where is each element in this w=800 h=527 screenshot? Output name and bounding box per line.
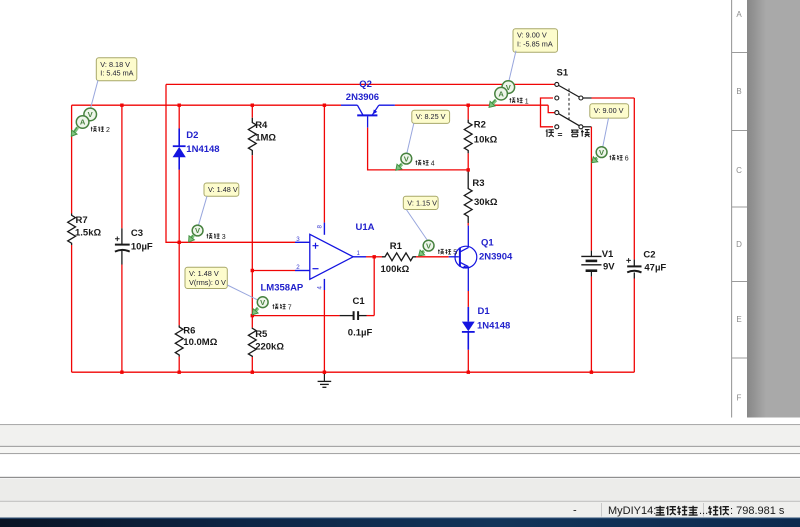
probe 2 readout box <box>96 58 137 81</box>
junction ground symbol/rail <box>323 371 326 374</box>
wire output to C1 branch <box>373 257 375 316</box>
svg-text:2N3906: 2N3906 <box>346 92 379 103</box>
svg-text:U1A: U1A <box>356 222 375 233</box>
svg-text:D2: D2 <box>186 130 198 141</box>
ground <box>318 372 332 387</box>
junction R5/ground rail <box>251 371 254 374</box>
probe 5 V circle <box>423 240 434 251</box>
svg-text:LM358AP: LM358AP <box>261 283 304 294</box>
svg-text:A: A <box>80 118 86 127</box>
switch S1 contacts and blades <box>555 82 592 128</box>
wire inverting input <box>252 270 295 272</box>
svg-text:1N4148: 1N4148 <box>477 321 510 332</box>
svg-text:2N3904: 2N3904 <box>479 252 513 263</box>
junction output node <box>373 255 376 258</box>
probe 7 readout box <box>185 267 227 288</box>
probe 3 readout box <box>204 183 239 196</box>
svg-text:4: 4 <box>317 286 324 290</box>
svg-text:-: - <box>573 505 577 517</box>
wire D2/R6 branch middle <box>178 170 180 325</box>
wire D1 to ground rail <box>467 350 469 372</box>
probe 5 label 探针5 <box>438 249 457 257</box>
wire R5 branch lower <box>251 357 253 372</box>
probe 4 readout box <box>412 110 450 123</box>
probe 4 V circle <box>401 153 412 164</box>
wire non-inverting input net (corner x166) <box>166 84 295 242</box>
svg-text:30kΩ: 30kΩ <box>474 197 498 208</box>
wire op-amp V- supply to ground rail <box>323 290 325 372</box>
svg-text:I: 5.45 mA: I: 5.45 mA <box>100 68 133 77</box>
svg-text:V: 1.48 V: V: 1.48 V <box>208 185 238 194</box>
probe 1 readout box <box>513 29 558 53</box>
probe 3 arrow <box>189 235 195 242</box>
wire op-amp V+ supply branch <box>323 105 325 222</box>
wire left branch lower <box>71 245 73 372</box>
probe 7 label 探针7 <box>273 304 292 312</box>
junction C3/top rail <box>120 104 123 107</box>
resistor R2 <box>464 120 472 154</box>
junction + input node <box>178 241 181 244</box>
probe 6 arrow <box>592 157 598 163</box>
probe 7 leader <box>227 285 257 300</box>
wire V1 branch upper <box>590 127 592 251</box>
wire S1 throw tie (left U) <box>541 98 554 127</box>
svg-text:10µF: 10µF <box>131 241 153 252</box>
probe 2 leader <box>91 80 98 108</box>
probe 1 leader <box>509 51 516 81</box>
svg-text:1MΩ: 1MΩ <box>255 133 276 144</box>
wire R1 to Q1 base <box>416 256 449 258</box>
junction U1A supply/top rail <box>323 104 326 107</box>
probe 6 leader <box>603 118 609 147</box>
probe 1 arrow <box>489 100 496 108</box>
probe 4 label 探针4 <box>416 160 435 168</box>
wire C3 branch lower <box>121 265 123 373</box>
svg-text:S1: S1 <box>557 68 569 79</box>
capacitor C1 <box>340 311 367 320</box>
probe 5 readout box <box>403 196 438 209</box>
wire rail corner into switch pole 2 <box>548 105 555 112</box>
svg-text:...: ... <box>699 505 708 517</box>
svg-text:R4: R4 <box>255 120 268 131</box>
svg-text:47µF: 47µF <box>644 262 666 273</box>
svg-text:V: 9.00 V: V: 9.00 V <box>594 106 624 115</box>
svg-text:C3: C3 <box>131 228 143 239</box>
wire R4-R5 branch middle <box>251 155 253 327</box>
svg-text:D: D <box>736 240 742 249</box>
probe 2 label 探针2 <box>91 126 110 134</box>
svg-text:1: 1 <box>525 98 529 105</box>
wire Q2 base to R2/R3 node <box>368 128 469 170</box>
probe 1 V circle <box>502 81 515 94</box>
wire rail Q2 emitter to switch <box>395 104 548 106</box>
wire R6 branch lower <box>178 357 180 373</box>
resistor R6 <box>175 325 183 356</box>
svg-text:R2: R2 <box>474 120 486 131</box>
transistor Q2 2N3906 (PNP) <box>341 105 395 127</box>
junction V1/ground rail <box>590 371 593 374</box>
svg-text:6: 6 <box>625 156 629 163</box>
svg-text:D1: D1 <box>478 306 491 317</box>
wire C1 right stub <box>367 315 375 317</box>
resistor R1 <box>382 253 416 261</box>
junction R4/top rail <box>251 104 254 107</box>
svg-text:A: A <box>736 10 742 19</box>
wire R3 to Q1 collector <box>467 223 469 226</box>
svg-text:V: 8.25 V: V: 8.25 V <box>416 112 446 121</box>
resistor R5 <box>248 328 256 357</box>
wire S1 top throw to C2 branch <box>592 97 635 99</box>
svg-text:7: 7 <box>288 305 292 312</box>
svg-text:2: 2 <box>296 264 300 271</box>
svg-text:R6: R6 <box>183 325 195 336</box>
probe 3 V circle <box>192 225 203 236</box>
capacitor C3 (polarized) <box>115 228 130 264</box>
svg-text:R5: R5 <box>255 329 268 340</box>
svg-text:220kΩ: 220kΩ <box>255 341 284 352</box>
junction C3/ground rail <box>120 371 123 374</box>
svg-text:8: 8 <box>317 225 324 229</box>
wire top rail (V+ net) <box>72 104 341 106</box>
svg-text:R7: R7 <box>76 215 88 226</box>
probe 7 arrow <box>252 308 258 315</box>
wire Q1 emitter to D1 <box>467 291 469 307</box>
svg-text:Q1: Q1 <box>481 237 494 248</box>
svg-text:0.1µF: 0.1µF <box>348 327 373 338</box>
junction R2/R3/Q2 base <box>467 168 470 171</box>
junction R6/ground rail <box>178 371 181 374</box>
wire V1 branch lower <box>590 277 592 373</box>
probe 1 label 探针1 <box>510 98 529 106</box>
svg-text:2: 2 <box>106 127 110 134</box>
resistor R4 <box>248 118 256 156</box>
svg-text:B: B <box>736 87 741 96</box>
svg-text:R1: R1 <box>390 241 403 252</box>
probe 6 readout box <box>590 104 629 118</box>
probe 6 V circle <box>596 147 607 158</box>
svg-text:Q2: Q2 <box>359 79 372 90</box>
wire inverting node to C1 <box>252 315 339 317</box>
junction D2/top rail <box>178 104 181 107</box>
diode D1 1N4148 <box>462 307 475 350</box>
probe 4 arrow <box>396 164 402 171</box>
wire R2 upper lead <box>467 105 469 119</box>
wire C2 branch lower <box>633 279 635 373</box>
svg-text:100kΩ: 100kΩ <box>381 264 410 275</box>
svg-text:10kΩ: 10kΩ <box>474 135 498 146</box>
svg-text:3: 3 <box>222 234 226 241</box>
op-amp U1A LM358AP <box>295 223 366 290</box>
svg-text:1N4148: 1N4148 <box>186 144 219 155</box>
svg-text:3: 3 <box>296 236 300 243</box>
svg-text:V1: V1 <box>602 249 614 260</box>
probe 3 label 探针3 <box>207 233 226 241</box>
svg-text:: 798.981 s: : 798.981 s <box>730 505 785 517</box>
junction - input node <box>251 269 254 272</box>
wire bottom ground rail <box>72 371 635 373</box>
probe 2 arrow <box>71 127 77 136</box>
wire left branch upper <box>71 105 73 213</box>
probe 3 leader <box>199 196 208 225</box>
battery V1 9V <box>581 251 601 277</box>
probe 2 V circle <box>84 108 97 121</box>
resistor R7 <box>68 214 76 246</box>
svg-text:=: = <box>558 129 563 139</box>
diode D2 1N4148 <box>173 129 186 170</box>
wire D2 branch upper <box>178 105 180 128</box>
svg-text:C2: C2 <box>643 250 655 261</box>
wire top feedback rail y84 to switch <box>166 83 555 85</box>
wire R4 branch upper <box>251 105 253 118</box>
svg-text:1.5kΩ: 1.5kΩ <box>75 228 101 239</box>
wire R2 to node <box>467 153 469 170</box>
svg-text:1: 1 <box>357 250 361 257</box>
svg-text:4: 4 <box>431 161 435 168</box>
probe 7 V circle <box>257 297 268 308</box>
svg-text:I: -5.85 mA: I: -5.85 mA <box>517 39 553 48</box>
svg-text:A: A <box>498 89 504 98</box>
svg-text:R3: R3 <box>472 178 484 189</box>
probe 5 leader <box>406 210 427 241</box>
probe 1 A circle <box>495 87 508 100</box>
junction R2/rail <box>467 104 470 107</box>
svg-text:E: E <box>736 315 741 324</box>
junction D1/ground rail <box>467 371 470 374</box>
transistor Q1 2N3904 (NPN) <box>449 226 477 291</box>
svg-text:C1: C1 <box>353 296 366 307</box>
S1 key label 键 = 空格 <box>546 129 590 139</box>
svg-text:V: 1.15 V: V: 1.15 V <box>407 198 437 207</box>
wire C3 branch upper <box>121 105 123 228</box>
probe 4 leader <box>407 123 414 153</box>
junction C1/R5 node <box>251 314 254 317</box>
svg-text:5: 5 <box>453 250 457 257</box>
svg-text:10.0MΩ: 10.0MΩ <box>183 337 217 348</box>
resistor R3 <box>464 172 472 224</box>
capacitor C2 (polarized) <box>626 258 641 278</box>
wire C2 branch upper <box>633 98 635 260</box>
svg-text:9V: 9V <box>603 262 615 273</box>
probe 6 label 探针6 <box>610 155 629 163</box>
svg-text:F: F <box>737 394 742 403</box>
svg-text:C: C <box>736 166 742 175</box>
probe 5 arrow <box>419 250 425 256</box>
svg-text:MyDIY14:: MyDIY14: <box>608 505 656 517</box>
wire op-amp output to R1 <box>366 256 382 258</box>
probe 2 A circle <box>76 116 89 129</box>
svg-text:V(rms): 0 V: V(rms): 0 V <box>189 278 226 287</box>
